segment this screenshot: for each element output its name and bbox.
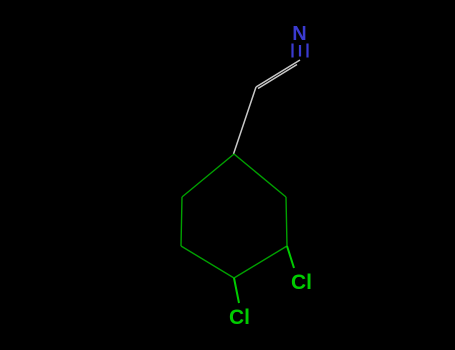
- benzene ring: [181, 154, 287, 278]
- edge C6-C1: [182, 154, 234, 197]
- svg-text:N: N: [292, 23, 306, 45]
- edge C4-C5: [181, 246, 234, 278]
- edge C5-C6: [181, 197, 182, 246]
- chain single bond to ring: [234, 87, 257, 154]
- edge C1-C2: [234, 154, 286, 197]
- edge C3-C4: [234, 246, 287, 278]
- nitrile triple bond C#N: [293, 44, 308, 58]
- vinyl C=C double bond: [256, 60, 300, 89]
- C-Cl bond right: [287, 246, 294, 268]
- svg-text:Cl: Cl: [229, 306, 250, 329]
- C-Cl bond bottom: [234, 278, 239, 303]
- edge C2-C3: [286, 197, 287, 246]
- svg-text:Cl: Cl: [291, 271, 312, 294]
